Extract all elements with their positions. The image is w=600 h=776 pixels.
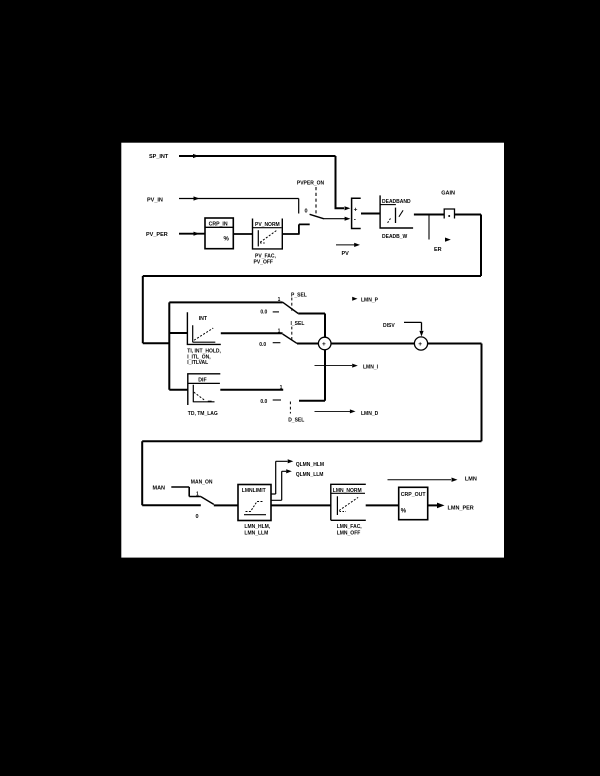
label DEADB_W: [382, 234, 408, 240]
wire D switch out: [299, 350, 325, 401]
block DEADBAND: [380, 195, 413, 228]
wire PV_NORM out step: [282, 224, 309, 234]
block PV_NORM: [253, 219, 283, 249]
label PVPER_ON: [297, 181, 325, 187]
svg-text:D_SEL: D_SEL: [288, 418, 304, 424]
svg-text:LMN_NORM: LMN_NORM: [333, 488, 362, 494]
svg-text:PV_PER: PV_PER: [146, 232, 168, 238]
wire CRP_IN to PV_NORM: [233, 233, 252, 235]
wire INT in: [169, 332, 187, 334]
svg-text:LMN_HLM,: LMN_HLM,: [244, 524, 270, 530]
label MAN_ON: [191, 480, 213, 486]
wire S2 to S3: [331, 343, 414, 345]
svg-text:LMN_P: LMN_P: [361, 297, 379, 303]
label LMN with arrow: [388, 476, 477, 482]
label MAN: [153, 486, 166, 492]
wire gain out to corner: [455, 215, 482, 277]
wire error bus: [168, 302, 170, 389]
svg-text:PV: PV: [342, 251, 350, 257]
svg-text:1: 1: [278, 329, 281, 335]
svg-text:CRP_IN: CRP_IN: [209, 221, 228, 227]
switch MAN_ON blade: [201, 497, 214, 505]
svg-text:PV_OFF: PV_OFF: [254, 259, 273, 265]
summer S2 PID: [318, 337, 331, 350]
label D_SEL: [288, 418, 304, 424]
wire PV_IN: [179, 196, 299, 213]
svg-text:1: 1: [278, 297, 281, 303]
svg-text:MAN_ON: MAN_ON: [191, 480, 213, 486]
switch PVPER_ON blade: [310, 214, 324, 219]
svg-text:-: -: [354, 217, 356, 224]
label 1 MAN contact: [196, 491, 199, 497]
wire I switch out: [297, 343, 318, 345]
label PV_FAC PV_OFF: [254, 254, 277, 266]
wire S3 out loop to bottom: [142, 344, 481, 506]
svg-text:PV_IN: PV_IN: [147, 198, 163, 204]
svg-text:0.0: 0.0: [260, 399, 267, 405]
svg-text:DISV: DISV: [383, 323, 395, 329]
wire CRP_OUT out: [428, 503, 445, 509]
control line PVPER_ON: [315, 187, 317, 214]
label LMN_P: [352, 297, 378, 304]
label 0 MAN contact: [196, 514, 199, 520]
wire ER tap: [429, 215, 451, 242]
label 0.0 P contact: [260, 309, 279, 315]
svg-text:I_SEL: I_SEL: [291, 321, 305, 327]
summer S1 error bracket: [352, 198, 361, 228]
svg-text:%: %: [401, 508, 407, 514]
label QLMN_HLM: [296, 462, 324, 468]
wire PV_PER: [179, 232, 205, 236]
wire feedback loop to middle: [143, 276, 481, 343]
svg-text:0: 0: [196, 514, 199, 520]
label GAIN: [441, 191, 455, 197]
label LMN_HLM LMN_LLM: [244, 524, 270, 536]
label P_SEL: [291, 292, 307, 298]
svg-text:LMN_LLM: LMN_LLM: [244, 530, 268, 536]
block LMNLIMIT: [238, 485, 271, 521]
wire LMNLIMIT to LMN_NORM: [271, 504, 331, 506]
svg-text:LMN_FAC,: LMN_FAC,: [337, 524, 363, 530]
svg-text:LMNLIMIT: LMNLIMIT: [242, 488, 266, 494]
switch P_SEL blade: [283, 302, 299, 313]
label PV_PER: [146, 232, 168, 238]
label LMN_FAC LMN_OFF: [337, 524, 363, 537]
label 0 contact: [305, 209, 308, 215]
block GAIN multiplier: [444, 209, 454, 219]
label 0.0 D contact: [260, 399, 281, 405]
svg-text:I_ITLVAL: I_ITLVAL: [187, 360, 208, 366]
wire summer out: [361, 213, 380, 215]
svg-text:QLMN_LLM: QLMN_LLM: [296, 472, 324, 478]
label PV with arrow: [336, 243, 360, 257]
svg-text:PVPER_ON: PVPER_ON: [297, 181, 325, 187]
label SP_INT: [149, 154, 169, 160]
svg-text:INT: INT: [199, 316, 208, 322]
svg-text:LMN_PER: LMN_PER: [448, 506, 474, 512]
white diagram panel: [121, 143, 504, 558]
wire DIF in: [169, 389, 188, 391]
svg-text:CRP_OUT: CRP_OUT: [401, 492, 427, 498]
svg-text:LMN: LMN: [465, 476, 477, 482]
svg-text:SP_INT: SP_INT: [149, 154, 169, 160]
label ER: [434, 247, 442, 253]
svg-text:0.0: 0.0: [259, 342, 266, 348]
label TD TM_LAG: [188, 411, 218, 417]
wire deadband to gain: [414, 214, 444, 216]
summer S3 DISV: [414, 337, 427, 350]
svg-text:%: %: [224, 236, 230, 242]
svg-text:PV_NORM: PV_NORM: [255, 222, 280, 228]
svg-text:P_SEL: P_SEL: [291, 292, 307, 298]
svg-text:+: +: [322, 341, 326, 348]
block INT: [187, 312, 220, 344]
label 0.0 I contact: [259, 342, 280, 348]
block CRP_OUT: [399, 487, 428, 519]
svg-text:1: 1: [280, 385, 283, 391]
label I_SEL: [291, 321, 305, 327]
svg-text:GAIN: GAIN: [441, 191, 455, 197]
svg-text:MAN: MAN: [153, 486, 166, 492]
svg-text:LMN_I: LMN_I: [363, 364, 379, 370]
label 1 I contact: [278, 329, 281, 335]
label LMN_PER: [448, 506, 474, 512]
wire P row: [169, 301, 282, 303]
svg-text:DEADB_W: DEADB_W: [382, 234, 408, 240]
wire QLMN_LLM: [271, 469, 292, 500]
switch I_SEL blade: [283, 334, 297, 343]
wire SP_INT trunk: [179, 154, 350, 211]
control line D_SEL: [289, 402, 291, 414]
svg-text:1: 1: [196, 491, 199, 497]
svg-text:ER: ER: [434, 247, 442, 253]
wire QLMN_HLM: [271, 459, 293, 494]
control line P_SEL: [291, 298, 293, 311]
wire INT out: [221, 332, 283, 334]
label 1 D contact: [280, 385, 283, 391]
block DIF: [188, 374, 221, 405]
svg-text:+: +: [418, 341, 422, 348]
control line I_SEL: [291, 327, 293, 341]
wire MAN step: [171, 487, 201, 497]
svg-text:LMN_OFF: LMN_OFF: [337, 531, 361, 537]
wire DIF out: [220, 389, 283, 391]
label INT params: [187, 348, 221, 366]
label LMN_D with arrow: [315, 409, 379, 417]
label QLMN_LLM: [296, 472, 324, 478]
svg-text:LMN_D: LMN_D: [361, 411, 379, 417]
svg-text:QLMN_HLM: QLMN_HLM: [296, 462, 324, 468]
block LMN_NORM: [331, 484, 366, 520]
wire switch to summer minus: [324, 217, 350, 221]
svg-text:0: 0: [305, 209, 308, 215]
wire DISV: [404, 322, 424, 336]
label DISV: [383, 323, 395, 329]
wire P switch out: [298, 314, 325, 338]
svg-text:0.0: 0.0: [260, 309, 267, 315]
label 1 P contact: [278, 297, 281, 303]
label PV_IN: [147, 198, 163, 204]
svg-text:DIF: DIF: [198, 377, 206, 383]
svg-text:+: +: [354, 206, 358, 213]
svg-text:TI, INT_HOLD,: TI, INT_HOLD,: [187, 348, 221, 354]
svg-text:TD, TM_LAG: TD, TM_LAG: [188, 411, 218, 417]
wire switch to LMNLIMIT: [214, 504, 238, 506]
label LMN_I with arrow: [315, 364, 379, 371]
svg-text:DEADBAND: DEADBAND: [382, 199, 411, 205]
block CRP_IN: [205, 218, 233, 249]
wire LMN_NORM to CRP_OUT: [366, 504, 399, 506]
